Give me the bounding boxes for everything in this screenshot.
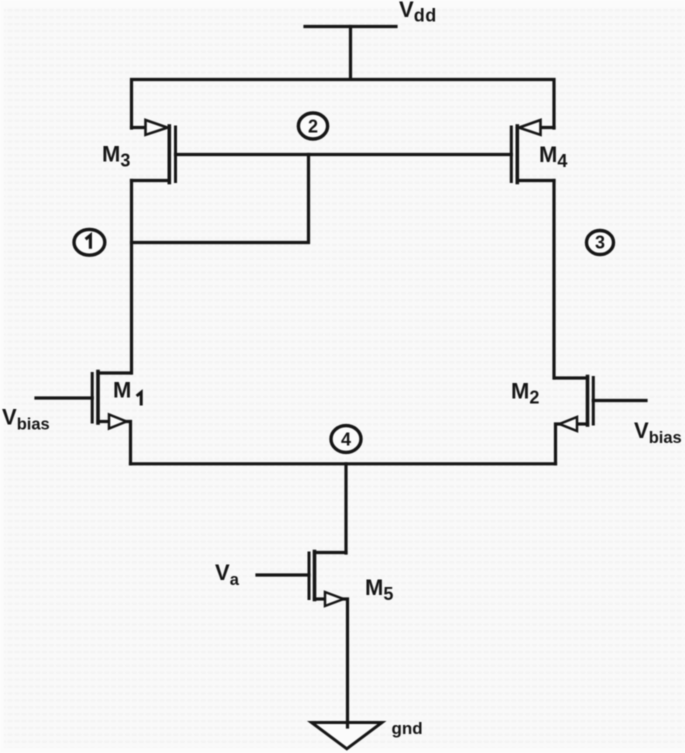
wire: right branch (M4 drain to M2 drain) — [552, 181, 555, 379]
node 1 number — [86, 235, 91, 249]
node 2 circle — [298, 113, 327, 139]
svg-text:M: M — [113, 378, 131, 403]
wire: diode-connect from node 2 rail down to node 1 wire — [132, 155, 309, 243]
svg-text:3: 3 — [595, 233, 605, 253]
node 1 circle — [74, 229, 105, 255]
transistor M4 (PMOS) — [511, 120, 554, 183]
transistor M2 (NMOS) — [555, 377, 646, 464]
wire: node 4 bottom rail — [131, 462, 556, 465]
transistor M5 (NMOS) — [257, 552, 348, 723]
transistor M1 (NMOS) — [36, 372, 131, 464]
power supply Vdd symbol — [305, 27, 396, 80]
svg-text:gnd: gnd — [392, 719, 423, 738]
wire: Vdd top rail — [132, 80, 555, 129]
ground symbol — [312, 723, 383, 749]
node 4 circle — [331, 426, 361, 453]
node 3 circle — [587, 231, 614, 255]
wire: left branch (M3 drain to M1 drain) — [130, 181, 133, 374]
svg-text:4: 4 — [341, 430, 351, 450]
wire: node 4 to M5 drain — [344, 464, 347, 553]
wire: node 2 gate rail (M3 gate to M4 gate) — [176, 153, 512, 156]
transistor M3 (PMOS) — [132, 120, 176, 183]
svg-text:2: 2 — [308, 117, 318, 137]
